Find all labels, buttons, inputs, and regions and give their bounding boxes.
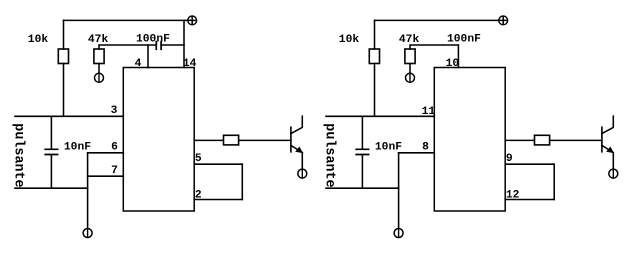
- wire pin 14: [183, 20, 185, 67]
- resistor base R right: [535, 135, 550, 145]
- svg-text:pulsante: pulsante: [322, 123, 337, 187]
- wire pin 8: [399, 152, 435, 154]
- wire 47k bottom lead right: [409, 64, 411, 74]
- resistor 10k: [58, 49, 68, 64]
- VCC terminal + symbol: [188, 16, 197, 25]
- wire junction down right: [398, 153, 400, 228]
- svg-text:10k: 10k: [28, 34, 49, 46]
- svg-text:5: 5: [195, 153, 202, 165]
- svg-text:2: 2: [195, 190, 202, 202]
- svg-text:10nF: 10nF: [64, 142, 91, 154]
- wire cap 10nF top lead right: [361, 116, 363, 149]
- wire cap 10nF bottom lead: [50, 155, 52, 189]
- resistor base R: [224, 135, 239, 145]
- wire pin 4: [147, 45, 149, 68]
- wire 10k top lead right: [374, 20, 376, 49]
- wire output to base: [194, 139, 291, 141]
- wire cap 10nF bottom lead right: [361, 155, 363, 189]
- svg-text:100nF: 100nF: [447, 34, 481, 46]
- terminal circle below 47k: [95, 73, 104, 82]
- svg-text:10k: 10k: [339, 34, 360, 46]
- svg-text:47k: 47k: [88, 34, 109, 46]
- terminal circle bottom left: [83, 229, 92, 238]
- wire pin 2: [194, 199, 242, 201]
- wire bottom rail right: [326, 187, 399, 189]
- svg-text:100nF: 100nF: [136, 34, 170, 46]
- wire loop 9-12: [553, 164, 555, 199]
- wire pin 3: [15, 115, 123, 117]
- resistor 10k right: [369, 49, 379, 64]
- svg-text:9: 9: [506, 153, 513, 165]
- wire 10k top lead: [63, 20, 65, 49]
- wire 47k bottom lead: [98, 64, 100, 74]
- wire pin 7: [88, 175, 124, 177]
- svg-text:10nF: 10nF: [375, 142, 402, 154]
- wire output to base right: [505, 139, 602, 141]
- terminal circle emitter: [298, 169, 307, 178]
- wire emitter down: [301, 153, 303, 169]
- svg-text:8: 8: [422, 141, 429, 153]
- svg-text:6: 6: [111, 141, 118, 153]
- wire VCC rail left: [64, 19, 189, 21]
- wire pin 11: [326, 115, 434, 117]
- wire cap 10nF top lead: [50, 116, 52, 149]
- VCC terminal + symbol right: [499, 16, 508, 25]
- wire emitter down right: [612, 153, 614, 169]
- svg-text:12: 12: [506, 190, 520, 202]
- wire pin 10: [457, 45, 459, 68]
- wire cap to pin14 riser: [161, 44, 184, 46]
- wire bottom rail: [15, 187, 88, 189]
- svg-text:11: 11: [422, 106, 436, 118]
- wire pin 5: [194, 163, 242, 165]
- wire loop 5-2: [241, 164, 243, 199]
- wire 10k bottom lead: [63, 64, 65, 117]
- svg-text:pulsante: pulsante: [11, 123, 26, 187]
- wire 10k bottom lead right: [374, 64, 376, 117]
- svg-text:3: 3: [111, 105, 118, 117]
- capacitor C 100nF: [156, 42, 161, 50]
- capacitor 10nF right: [356, 149, 368, 154]
- resistor 47k: [94, 49, 104, 64]
- wire junction down: [87, 153, 89, 228]
- wire VCC rail right: [375, 19, 500, 21]
- resistor 47k right: [405, 49, 415, 64]
- wire pin 6: [88, 152, 124, 154]
- IC U2: [434, 68, 505, 212]
- terminal circle emitter right: [609, 169, 618, 178]
- capacitor 10nF: [45, 149, 57, 154]
- transistor Q1: [291, 116, 303, 153]
- wire pin 12: [505, 199, 554, 201]
- svg-text:47k: 47k: [399, 34, 420, 46]
- svg-text:7: 7: [111, 165, 118, 177]
- transistor Q2: [602, 116, 614, 153]
- wire pin 9: [505, 163, 554, 165]
- wire 47k top to cap: [99, 45, 156, 49]
- terminal circle below 47k right: [406, 73, 415, 82]
- wire 47k top to pin 10: [410, 45, 458, 49]
- terminal circle bottom right: [394, 229, 403, 238]
- IC U1: [123, 68, 194, 212]
